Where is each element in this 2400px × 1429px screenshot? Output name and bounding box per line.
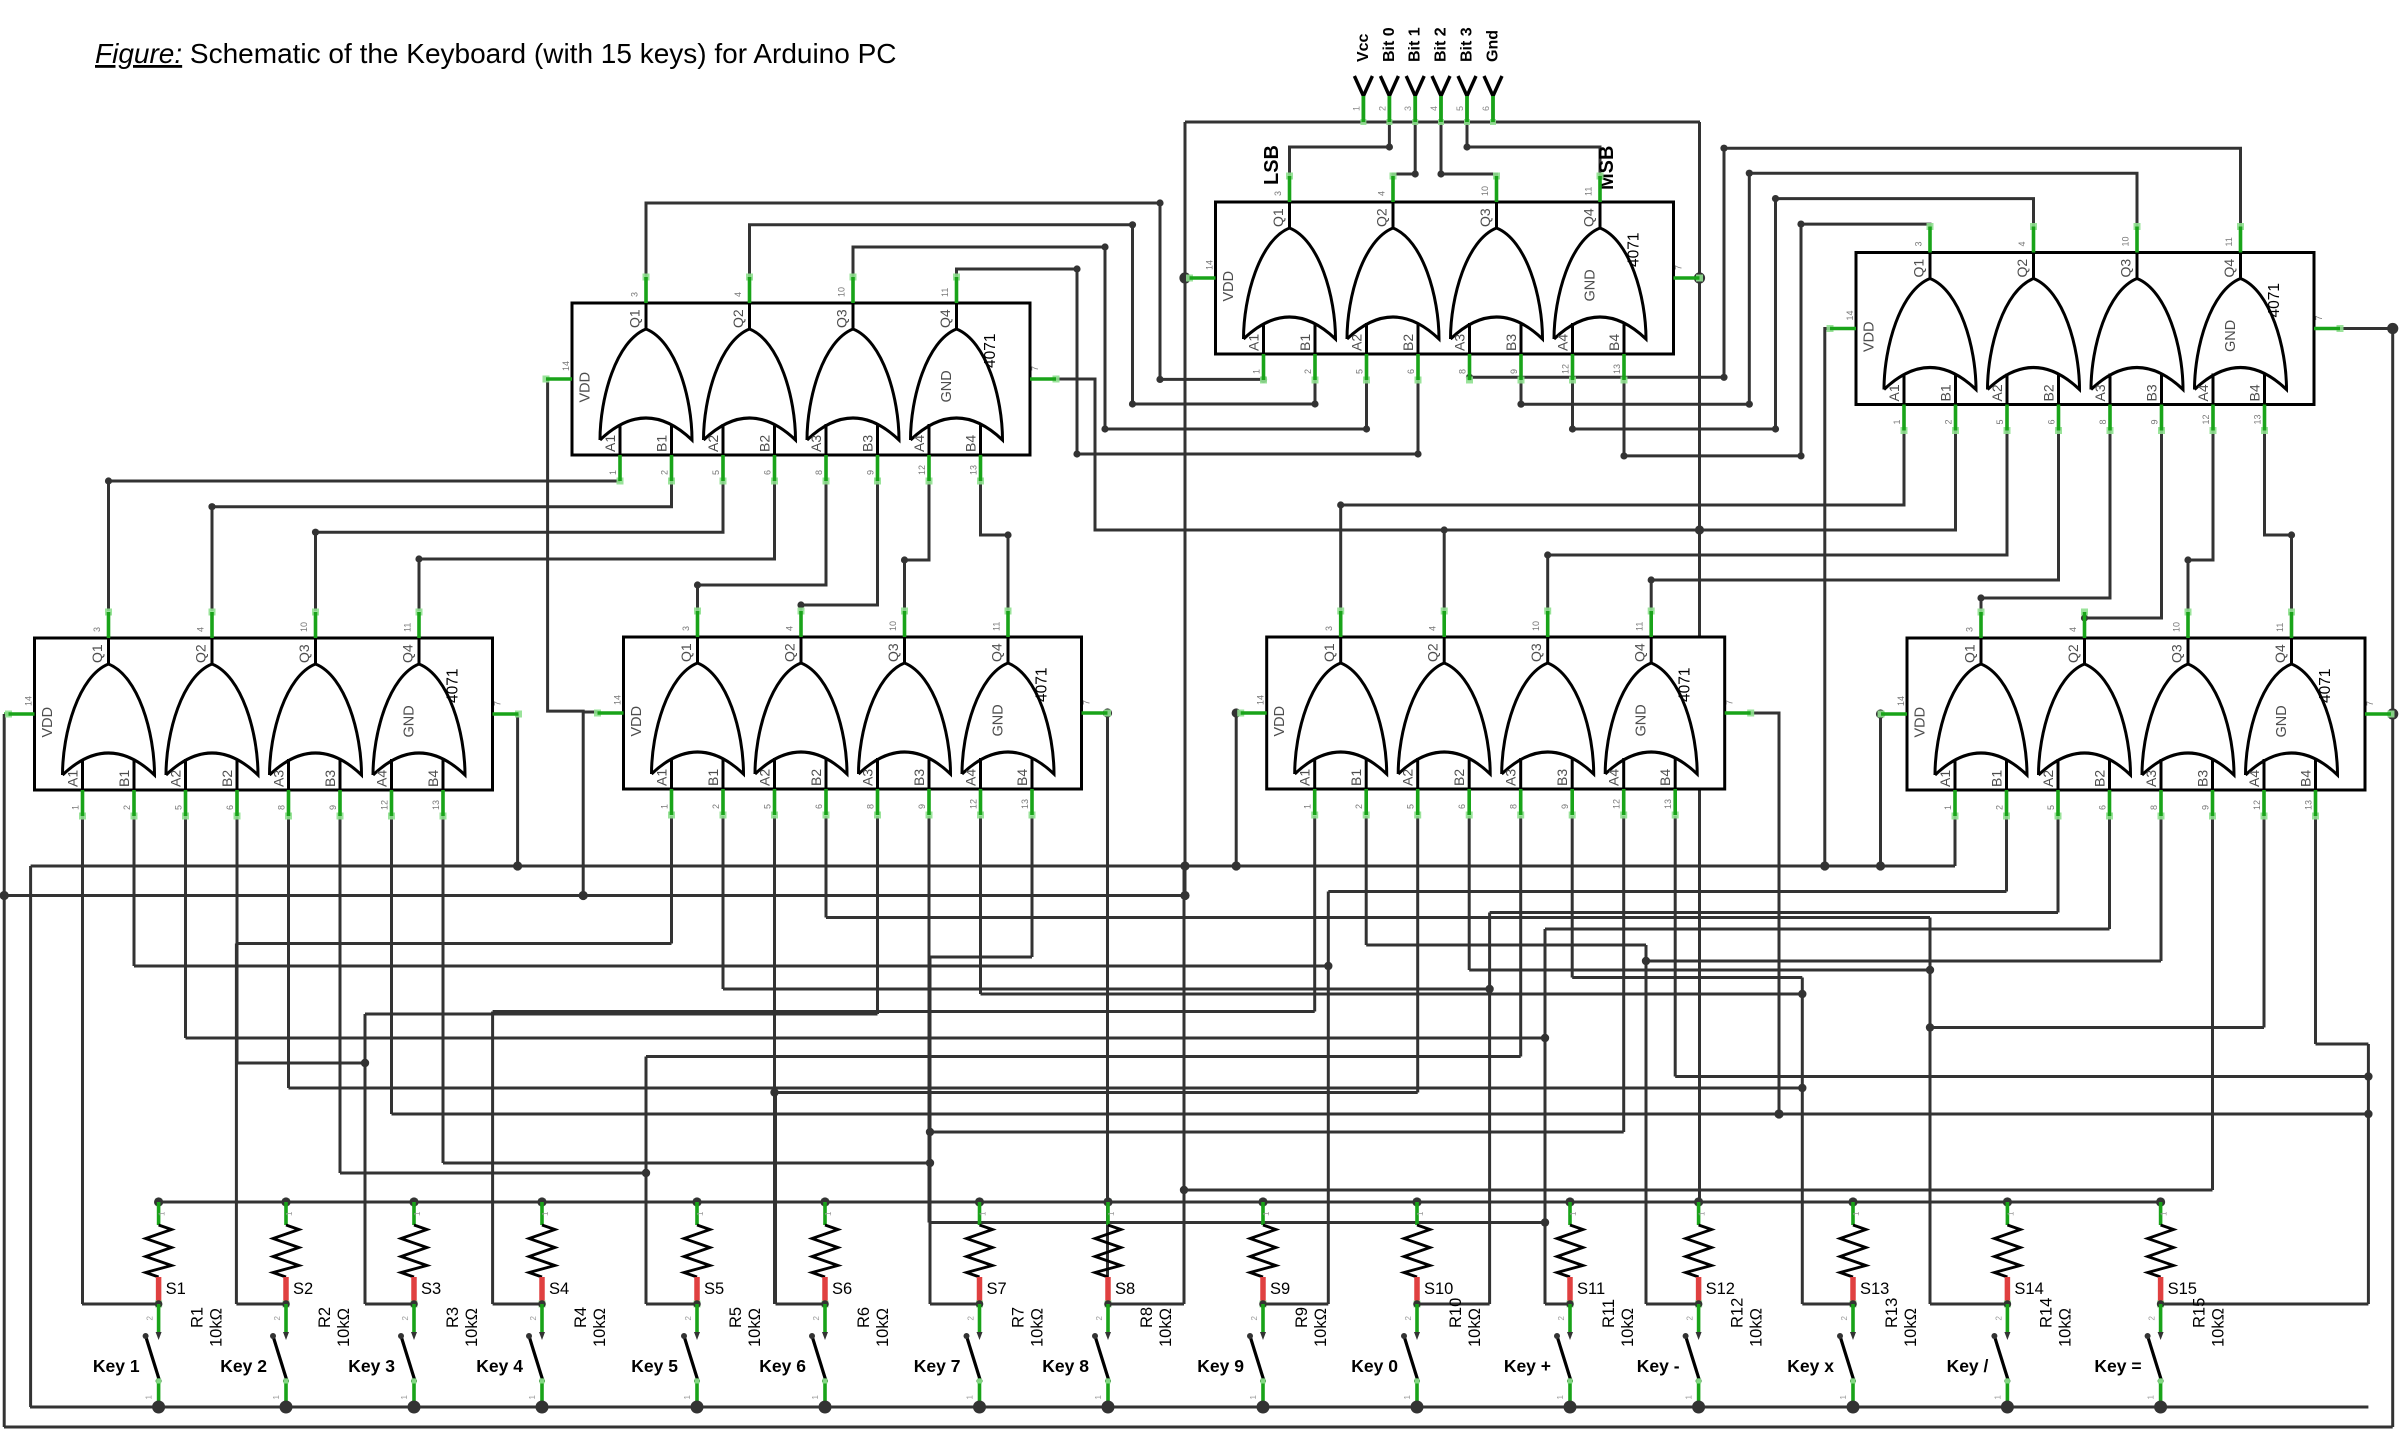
svg-text:A2: A2 — [2040, 770, 2056, 787]
svg-text:10: 10 — [837, 287, 847, 297]
svg-text:13: 13 — [1663, 799, 1673, 809]
svg-text:VDD: VDD — [1862, 321, 1878, 352]
svg-text:2: 2 — [1095, 1315, 1104, 1320]
svg-text:1: 1 — [1351, 106, 1361, 111]
svg-text:1: 1 — [1852, 1211, 1861, 1216]
svg-text:R10: R10 — [1447, 1298, 1465, 1328]
svg-text:3: 3 — [630, 292, 640, 297]
svg-text:3: 3 — [1914, 241, 1924, 246]
svg-text:10: 10 — [1531, 621, 1541, 631]
svg-text:S11: S11 — [1577, 1280, 1605, 1298]
svg-text:1: 1 — [811, 1394, 820, 1399]
svg-text:Key 9: Key 9 — [1197, 1356, 1244, 1376]
svg-text:S3: S3 — [421, 1280, 441, 1298]
svg-text:S4: S4 — [549, 1280, 569, 1298]
svg-text:Q4: Q4 — [2221, 259, 2237, 278]
svg-text:VDD: VDD — [629, 706, 645, 737]
svg-text:7: 7 — [2365, 701, 2375, 706]
svg-text:Q3: Q3 — [2169, 644, 2185, 663]
svg-text:1: 1 — [1569, 1211, 1578, 1216]
svg-text:4: 4 — [733, 292, 743, 297]
svg-text:4071: 4071 — [1677, 668, 1694, 702]
svg-text:4071: 4071 — [982, 334, 999, 368]
svg-text:1: 1 — [541, 1211, 550, 1216]
svg-text:6: 6 — [1481, 106, 1491, 111]
svg-text:10kΩ: 10kΩ — [1902, 1308, 1920, 1347]
svg-text:Key 3: Key 3 — [348, 1356, 395, 1376]
svg-text:14: 14 — [24, 696, 34, 706]
svg-text:Q3: Q3 — [834, 309, 850, 328]
svg-text:S9: S9 — [1270, 1280, 1290, 1298]
svg-text:S8: S8 — [1115, 1280, 1135, 1298]
svg-text:9: 9 — [866, 470, 876, 475]
svg-text:10: 10 — [888, 621, 898, 631]
svg-text:3: 3 — [1965, 627, 1975, 632]
svg-text:Q2: Q2 — [2014, 259, 2030, 278]
svg-text:B3: B3 — [2144, 384, 2160, 401]
svg-text:Q2: Q2 — [193, 644, 209, 663]
svg-text:14: 14 — [1256, 695, 1266, 705]
svg-text:12: 12 — [917, 465, 927, 475]
svg-text:2: 2 — [1250, 1315, 1259, 1320]
svg-text:10kΩ: 10kΩ — [746, 1308, 764, 1347]
svg-text:VDD: VDD — [1221, 271, 1237, 302]
svg-text:B4: B4 — [2298, 770, 2314, 787]
svg-text:1: 1 — [272, 1394, 281, 1399]
svg-text:1: 1 — [2147, 1394, 2156, 1399]
svg-text:LSB: LSB — [1261, 145, 1283, 185]
svg-text:S1: S1 — [166, 1280, 186, 1298]
svg-text:B1: B1 — [1938, 384, 1954, 401]
svg-text:10kΩ: 10kΩ — [1029, 1308, 1047, 1347]
svg-text:10kΩ: 10kΩ — [208, 1308, 226, 1347]
svg-text:B3: B3 — [1554, 769, 1570, 786]
svg-text:Key 1: Key 1 — [93, 1356, 140, 1376]
svg-text:A4: A4 — [2195, 384, 2211, 401]
svg-text:10kΩ: 10kΩ — [2210, 1308, 2228, 1347]
svg-text:1: 1 — [1556, 1394, 1565, 1399]
svg-text:A4: A4 — [963, 769, 979, 786]
svg-text:13: 13 — [1612, 364, 1622, 374]
svg-text:10kΩ: 10kΩ — [335, 1308, 353, 1347]
svg-text:10kΩ: 10kΩ — [1466, 1308, 1484, 1347]
svg-text:1: 1 — [1698, 1211, 1707, 1216]
svg-text:B3: B3 — [1503, 334, 1519, 351]
svg-text:Bit 3: Bit 3 — [1459, 27, 1476, 62]
svg-text:A4: A4 — [1555, 334, 1571, 351]
svg-text:1: 1 — [696, 1211, 705, 1216]
svg-text:R7: R7 — [1010, 1307, 1028, 1328]
svg-text:2: 2 — [529, 1315, 538, 1320]
svg-text:Q4: Q4 — [400, 644, 416, 663]
svg-text:1: 1 — [608, 470, 618, 475]
svg-text:VDD: VDD — [40, 707, 56, 738]
svg-text:VDD: VDD — [1913, 707, 1929, 738]
svg-text:R5: R5 — [727, 1307, 745, 1328]
svg-text:2: 2 — [1994, 1315, 2003, 1320]
svg-text:9: 9 — [2201, 805, 2211, 810]
svg-text:4071: 4071 — [2266, 283, 2283, 317]
svg-text:Key 4: Key 4 — [476, 1356, 523, 1376]
svg-text:5: 5 — [2046, 805, 2056, 810]
svg-text:9: 9 — [328, 805, 338, 810]
svg-text:Key 7: Key 7 — [914, 1356, 961, 1376]
svg-text:S10: S10 — [1424, 1280, 1453, 1298]
svg-text:10: 10 — [2121, 236, 2131, 246]
svg-text:4071: 4071 — [1034, 668, 1051, 702]
svg-text:GND: GND — [939, 370, 955, 402]
svg-text:4: 4 — [2068, 627, 2078, 632]
svg-text:A3: A3 — [1452, 334, 1468, 351]
svg-text:1: 1 — [979, 1211, 988, 1216]
svg-text:4071: 4071 — [1626, 233, 1643, 267]
svg-text:1: 1 — [1094, 1394, 1103, 1399]
svg-text:10kΩ: 10kΩ — [1748, 1308, 1766, 1347]
svg-text:B3: B3 — [860, 435, 876, 452]
svg-text:B1: B1 — [654, 435, 670, 452]
svg-text:S7: S7 — [987, 1280, 1007, 1298]
svg-text:A4: A4 — [1606, 769, 1622, 786]
svg-text:1: 1 — [145, 1394, 154, 1399]
svg-text:Key 0: Key 0 — [1351, 1356, 1398, 1376]
svg-text:B1: B1 — [116, 770, 132, 787]
svg-text:GND: GND — [2274, 705, 2290, 737]
svg-text:12: 12 — [969, 799, 979, 809]
svg-text:5: 5 — [711, 470, 721, 475]
svg-text:Key x: Key x — [1787, 1356, 1834, 1376]
svg-text:S2: S2 — [293, 1280, 313, 1298]
svg-text:Q2: Q2 — [782, 643, 798, 662]
svg-text:8: 8 — [2149, 805, 2159, 810]
svg-text:B2: B2 — [2092, 770, 2108, 787]
svg-text:Vcc: Vcc — [1355, 33, 1372, 62]
svg-text:S13: S13 — [1860, 1280, 1889, 1298]
svg-text:Q3: Q3 — [885, 643, 901, 662]
svg-text:Key 8: Key 8 — [1042, 1356, 1089, 1376]
svg-text:2: 2 — [146, 1315, 155, 1320]
svg-text:B4: B4 — [425, 770, 441, 787]
svg-text:13: 13 — [969, 465, 979, 475]
svg-text:B4: B4 — [1606, 334, 1622, 351]
svg-text:B3: B3 — [2195, 770, 2211, 787]
svg-text:2: 2 — [1377, 106, 1387, 111]
svg-text:R15: R15 — [2191, 1298, 2209, 1328]
svg-text:GND: GND — [1634, 704, 1650, 736]
svg-text:8: 8 — [814, 470, 824, 475]
svg-text:A1: A1 — [1246, 334, 1262, 351]
svg-text:1: 1 — [1943, 805, 1953, 810]
svg-text:5: 5 — [1406, 804, 1416, 809]
svg-text:4: 4 — [1428, 626, 1438, 631]
svg-text:VDD: VDD — [578, 372, 594, 403]
svg-text:R8: R8 — [1138, 1307, 1156, 1328]
svg-text:R13: R13 — [1883, 1298, 1901, 1328]
svg-text:14: 14 — [1845, 310, 1855, 320]
svg-text:Q3: Q3 — [1528, 643, 1544, 662]
svg-text:6: 6 — [1457, 804, 1467, 809]
svg-text:R2: R2 — [316, 1307, 334, 1328]
svg-text:R6: R6 — [855, 1307, 873, 1328]
svg-text:1: 1 — [1993, 1394, 2002, 1399]
svg-text:2: 2 — [1303, 369, 1313, 374]
svg-text:A1: A1 — [654, 769, 670, 786]
svg-text:1: 1 — [1249, 1394, 1258, 1399]
svg-text:R1: R1 — [189, 1307, 207, 1328]
svg-text:B4: B4 — [2247, 384, 2263, 401]
svg-text:10kΩ: 10kΩ — [1157, 1308, 1175, 1347]
svg-text:11: 11 — [992, 622, 1002, 631]
svg-text:S14: S14 — [2014, 1280, 2043, 1298]
svg-text:5: 5 — [1455, 106, 1465, 111]
svg-text:11: 11 — [2224, 237, 2234, 246]
svg-text:2: 2 — [812, 1315, 821, 1320]
svg-text:B1: B1 — [705, 769, 721, 786]
svg-text:S15: S15 — [2168, 1280, 2197, 1298]
svg-text:A3: A3 — [860, 769, 876, 786]
svg-text:1: 1 — [824, 1211, 833, 1216]
svg-text:B1: B1 — [1297, 334, 1313, 351]
svg-text:A2: A2 — [1349, 334, 1365, 351]
svg-text:13: 13 — [431, 800, 441, 810]
svg-text:Q2: Q2 — [730, 309, 746, 328]
svg-text:4071: 4071 — [445, 669, 462, 703]
svg-text:A2: A2 — [705, 435, 721, 452]
svg-text:GND: GND — [1583, 269, 1599, 301]
svg-text:13: 13 — [2253, 414, 2263, 424]
svg-text:1: 1 — [413, 1211, 422, 1216]
svg-text:B2: B2 — [219, 770, 235, 787]
svg-text:2: 2 — [660, 470, 670, 475]
svg-text:14: 14 — [1896, 696, 1906, 706]
svg-text:A3: A3 — [2092, 384, 2108, 401]
svg-text:12: 12 — [1561, 364, 1571, 374]
svg-text:6: 6 — [1406, 369, 1416, 374]
svg-text:6: 6 — [2098, 805, 2108, 810]
svg-text:Gnd: Gnd — [1485, 30, 1502, 62]
svg-text:7: 7 — [493, 701, 503, 706]
svg-text:VDD: VDD — [1272, 706, 1288, 737]
svg-text:1: 1 — [660, 804, 670, 809]
svg-text:A4: A4 — [2246, 770, 2262, 787]
svg-text:R4: R4 — [572, 1307, 590, 1328]
svg-text:7: 7 — [1030, 366, 1040, 371]
svg-text:10kΩ: 10kΩ — [591, 1308, 609, 1347]
svg-text:S5: S5 — [704, 1280, 724, 1298]
svg-text:6: 6 — [2047, 419, 2057, 424]
svg-text:9: 9 — [1560, 804, 1570, 809]
svg-text:2: 2 — [1354, 804, 1364, 809]
svg-text:1: 1 — [1252, 369, 1262, 374]
svg-text:Q1: Q1 — [627, 309, 643, 328]
svg-text:11: 11 — [1584, 187, 1594, 196]
svg-text:12: 12 — [2252, 800, 2262, 810]
svg-text:Key -: Key - — [1637, 1356, 1680, 1376]
svg-text:1: 1 — [2160, 1211, 2169, 1216]
svg-text:A1: A1 — [1937, 770, 1953, 787]
svg-text:10kΩ: 10kΩ — [463, 1308, 481, 1347]
svg-text:B2: B2 — [2041, 384, 2057, 401]
svg-text:1: 1 — [2006, 1211, 2015, 1216]
svg-text:R11: R11 — [1600, 1299, 1618, 1328]
svg-text:GND: GND — [402, 705, 418, 737]
svg-text:8: 8 — [1509, 804, 1519, 809]
svg-text:B2: B2 — [1400, 334, 1416, 351]
svg-text:5: 5 — [1995, 419, 2005, 424]
svg-text:4071: 4071 — [2317, 669, 2334, 703]
svg-text:GND: GND — [991, 704, 1007, 736]
svg-text:S6: S6 — [832, 1280, 852, 1298]
svg-text:1: 1 — [1303, 804, 1313, 809]
svg-text:A2: A2 — [1989, 384, 2005, 401]
svg-text:A1: A1 — [602, 435, 618, 452]
svg-text:1: 1 — [1262, 1211, 1271, 1216]
svg-text:Q3: Q3 — [296, 644, 312, 663]
svg-text:8: 8 — [2098, 419, 2108, 424]
svg-text:14: 14 — [561, 361, 571, 371]
svg-text:A2: A2 — [168, 770, 184, 787]
svg-text:11: 11 — [403, 623, 413, 632]
svg-text:1: 1 — [683, 1394, 692, 1399]
svg-text:Q1: Q1 — [1962, 644, 1978, 663]
svg-text:5: 5 — [1355, 369, 1365, 374]
svg-text:2: 2 — [401, 1315, 410, 1320]
svg-text:B1: B1 — [1348, 769, 1364, 786]
svg-text:1: 1 — [1892, 419, 1902, 424]
svg-text:Bit 2: Bit 2 — [1433, 27, 1450, 62]
svg-text:11: 11 — [2275, 623, 2285, 632]
svg-text:10kΩ: 10kΩ — [874, 1308, 892, 1347]
svg-text:2: 2 — [684, 1315, 693, 1320]
svg-text:4: 4 — [2017, 241, 2027, 246]
svg-text:2: 2 — [122, 805, 132, 810]
svg-text:A1: A1 — [1297, 769, 1313, 786]
svg-text:1: 1 — [158, 1211, 167, 1216]
svg-text:A2: A2 — [757, 769, 773, 786]
svg-text:A1: A1 — [1886, 384, 1902, 401]
svg-text:B4: B4 — [963, 435, 979, 452]
svg-text:4: 4 — [196, 627, 206, 632]
svg-text:A2: A2 — [1400, 769, 1416, 786]
svg-text:3: 3 — [1324, 626, 1334, 631]
svg-text:9: 9 — [917, 804, 927, 809]
svg-text:2: 2 — [1557, 1315, 1566, 1320]
svg-text:1: 1 — [400, 1394, 409, 1399]
svg-text:2: 2 — [1995, 805, 2005, 810]
svg-text:B3: B3 — [911, 769, 927, 786]
svg-text:2: 2 — [1686, 1315, 1695, 1320]
svg-text:Bit 0: Bit 0 — [1381, 27, 1398, 62]
svg-text:Q4: Q4 — [989, 643, 1005, 662]
svg-text:1: 1 — [1685, 1394, 1694, 1399]
svg-text:1: 1 — [528, 1394, 537, 1399]
svg-text:8: 8 — [1458, 369, 1468, 374]
svg-text:R3: R3 — [444, 1307, 462, 1328]
svg-text:13: 13 — [2304, 800, 2314, 810]
svg-text:B2: B2 — [1451, 769, 1467, 786]
svg-text:12: 12 — [1612, 799, 1622, 809]
svg-text:Key 5: Key 5 — [631, 1356, 678, 1376]
svg-text:B3: B3 — [322, 770, 338, 787]
svg-text:S12: S12 — [1706, 1280, 1735, 1298]
svg-text:1: 1 — [1107, 1211, 1116, 1216]
svg-text:14: 14 — [613, 695, 623, 705]
svg-text:Q2: Q2 — [2065, 644, 2081, 663]
svg-text:13: 13 — [1020, 799, 1030, 809]
svg-text:1: 1 — [285, 1211, 294, 1216]
svg-text:11: 11 — [1635, 622, 1645, 631]
svg-text:A4: A4 — [911, 435, 927, 452]
svg-text:A3: A3 — [271, 770, 287, 787]
svg-text:Q2: Q2 — [1425, 643, 1441, 662]
svg-text:R14: R14 — [2037, 1298, 2055, 1328]
svg-text:Q1: Q1 — [1321, 643, 1337, 662]
svg-text:Q3: Q3 — [1477, 208, 1493, 227]
svg-text:5: 5 — [174, 805, 184, 810]
svg-text:6: 6 — [225, 805, 235, 810]
svg-text:9: 9 — [2150, 419, 2160, 424]
svg-text:1: 1 — [966, 1394, 975, 1399]
svg-text:Key =: Key = — [2094, 1356, 2141, 1376]
svg-text:10: 10 — [2172, 622, 2182, 632]
svg-text:2: 2 — [273, 1315, 282, 1320]
svg-text:2: 2 — [1404, 1315, 1413, 1320]
svg-text:R12: R12 — [1729, 1298, 1747, 1328]
svg-text:12: 12 — [2201, 414, 2211, 424]
svg-text:B2: B2 — [757, 435, 773, 452]
svg-text:10: 10 — [299, 622, 309, 632]
svg-text:10: 10 — [1480, 186, 1490, 196]
svg-text:Q1: Q1 — [89, 644, 105, 663]
svg-text:B2: B2 — [808, 769, 824, 786]
svg-text:R9: R9 — [1293, 1307, 1311, 1328]
svg-text:Q4: Q4 — [1581, 208, 1597, 227]
svg-text:A3: A3 — [2143, 770, 2159, 787]
svg-text:7: 7 — [2314, 315, 2324, 320]
svg-text:Q4: Q4 — [1632, 643, 1648, 662]
svg-text:A4: A4 — [374, 770, 390, 787]
svg-text:Q2: Q2 — [1374, 208, 1390, 227]
svg-text:4: 4 — [1377, 191, 1387, 196]
svg-text:A3: A3 — [1503, 769, 1519, 786]
svg-text:Q1: Q1 — [1270, 208, 1286, 227]
svg-text:11: 11 — [940, 288, 950, 297]
svg-text:5: 5 — [763, 804, 773, 809]
svg-text:Q1: Q1 — [1911, 259, 1927, 278]
svg-text:7: 7 — [1082, 700, 1092, 705]
svg-text:9: 9 — [1509, 369, 1519, 374]
svg-text:7: 7 — [1674, 265, 1684, 270]
svg-text:B1: B1 — [1989, 770, 2005, 787]
svg-text:7: 7 — [1725, 700, 1735, 705]
svg-text:4: 4 — [785, 626, 795, 631]
svg-text:10kΩ: 10kΩ — [1619, 1308, 1637, 1347]
svg-text:Key 6: Key 6 — [759, 1356, 806, 1376]
svg-text:Key /: Key / — [1947, 1356, 1989, 1376]
svg-text:Q3: Q3 — [2118, 259, 2134, 278]
svg-text:6: 6 — [814, 804, 824, 809]
svg-text:Figure: Schematic of the Keybo: Figure: Schematic of the Keyboard (with … — [95, 38, 897, 69]
svg-text:14: 14 — [1205, 260, 1215, 270]
svg-text:3: 3 — [681, 626, 691, 631]
svg-text:3: 3 — [92, 627, 102, 632]
svg-text:2: 2 — [2148, 1315, 2157, 1320]
svg-text:B4: B4 — [1657, 769, 1673, 786]
svg-text:A1: A1 — [65, 770, 81, 787]
svg-text:8: 8 — [866, 804, 876, 809]
svg-text:1: 1 — [71, 805, 81, 810]
svg-text:Bit 1: Bit 1 — [1407, 27, 1424, 62]
svg-text:10kΩ: 10kΩ — [1312, 1308, 1330, 1347]
